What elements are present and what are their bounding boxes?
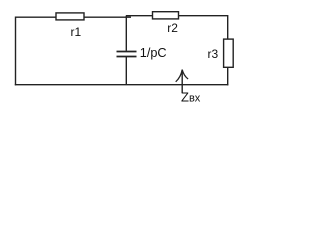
wire top left horizontal <box>16 16 132 18</box>
arrow Zvx left barb <box>176 70 183 82</box>
svg-text:r3: r3 <box>208 47 219 61</box>
arrow Zvx right barb <box>182 70 188 79</box>
svg-text:r1: r1 <box>71 25 82 39</box>
resistor R2 <box>153 12 179 19</box>
arrow Zvx shaft <box>181 70 183 94</box>
wire right vertical <box>227 15 229 85</box>
capacitor C bottom plate <box>117 56 137 58</box>
capacitor C top plate <box>117 51 137 53</box>
svg-text:r2: r2 <box>167 21 178 35</box>
svg-text:Zвх: Zвх <box>181 89 201 104</box>
wire bottom horizontal <box>15 84 229 86</box>
wire capacitor branch bottom <box>125 57 127 85</box>
wire left vertical <box>15 17 17 86</box>
wire capacitor branch top <box>125 16 127 51</box>
wire top right horizontal <box>126 15 228 17</box>
resistor R1 <box>56 13 84 20</box>
resistor R3 <box>224 39 234 67</box>
svg-text:1/pC: 1/pC <box>140 46 167 60</box>
